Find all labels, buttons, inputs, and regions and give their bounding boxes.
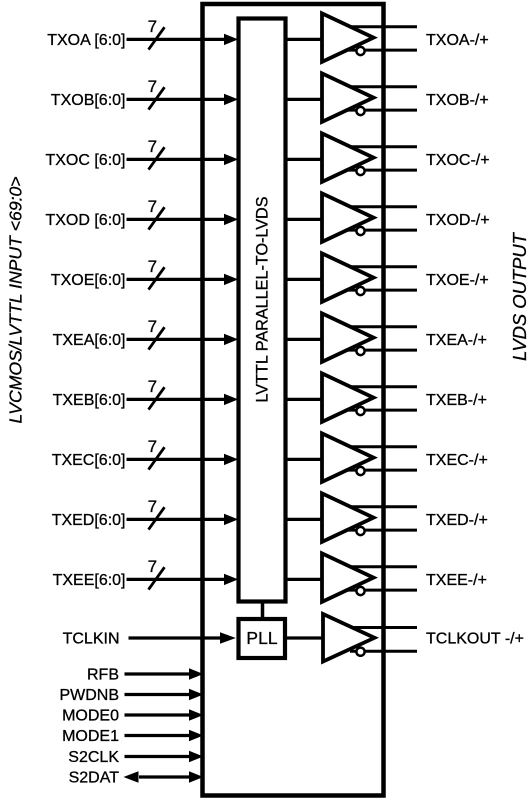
wire TXOC+ output	[349, 145, 417, 148]
svg-text:TXOB[6:0]: TXOB[6:0]	[51, 92, 126, 109]
inversion bubble TXOE	[356, 287, 364, 295]
bus width label 7 (TXOB)	[148, 77, 157, 96]
label TXEE[6:0]	[53, 572, 126, 589]
wire TXOC- output	[345, 169, 417, 172]
label LVDS OUTPUT	[509, 231, 530, 361]
svg-text:TXEC[6:0]: TXEC[6:0]	[52, 452, 126, 469]
wire MODE1	[125, 734, 192, 737]
serializer block LVTTL PARALLEL-TO-LVDS	[239, 19, 286, 602]
label TXEA-/+	[426, 332, 487, 349]
wire serializer to driver TXOD	[285, 218, 323, 221]
inversion bubble TXOB	[356, 107, 364, 115]
label TXOD-/+	[426, 212, 490, 229]
label TXED[6:0]	[52, 512, 126, 529]
wire MODE0	[125, 713, 192, 716]
wire TCLKOUT- output	[350, 650, 417, 653]
wire TXED- output	[345, 529, 417, 532]
svg-text:TXOC-/+: TXOC-/+	[426, 152, 490, 169]
svg-text:TXED-/+: TXED-/+	[426, 512, 488, 529]
svg-text:S2DAT: S2DAT	[69, 770, 120, 787]
svg-text:LVTTL PARALLEL-TO-LVDS: LVTTL PARALLEL-TO-LVDS	[254, 196, 272, 402]
label S2DAT	[69, 770, 120, 787]
arrowhead S2DAT bidirectional (left)	[124, 771, 139, 782]
wire serializer to driver TXEC	[285, 458, 323, 461]
wire S2DAT	[139, 775, 191, 778]
LVDS driver TXOC	[322, 133, 374, 182]
arrowhead TXOC into serializer	[224, 154, 238, 165]
wire TCLKIN	[129, 636, 223, 639]
bus slash TXOD	[149, 207, 165, 229]
label TXOC-/+	[426, 152, 490, 169]
svg-text:TXOC [6:0]: TXOC [6:0]	[45, 152, 125, 169]
label RFB	[87, 667, 119, 684]
wire TXOC input bus	[127, 158, 227, 161]
wire TXOD+ output	[349, 205, 417, 208]
wire TXOE+ output	[349, 265, 417, 268]
wire TXEE- output	[345, 589, 417, 592]
bus width label 7 (TXED)	[148, 497, 157, 516]
label TXEC-/+	[426, 452, 488, 469]
wire serializer to driver TXEE	[285, 578, 323, 581]
label TXEC[6:0]	[52, 452, 126, 469]
bus slash TXEC	[149, 447, 165, 469]
svg-text:7: 7	[148, 557, 157, 576]
LVDS clock driver TCLK	[323, 614, 375, 662]
svg-text:7: 7	[148, 497, 157, 516]
inversion bubble TCLK	[356, 648, 364, 656]
arrowhead TXOB into serializer	[224, 94, 238, 105]
inversion bubble TXOC	[356, 167, 364, 175]
arrowhead TXOE into serializer	[224, 274, 238, 285]
wire TXOA+ output	[349, 25, 417, 28]
bus width label 7 (TXEB)	[148, 377, 157, 396]
label LVCMOS/LVTTL INPUT <69:0>	[6, 176, 26, 423]
chip outline U1	[203, 4, 384, 796]
arrowhead MODE1 into chip	[189, 730, 203, 741]
svg-text:LVDS OUTPUT: LVDS OUTPUT	[509, 231, 530, 361]
svg-text:7: 7	[148, 77, 157, 96]
wire TXOB+ output	[349, 85, 417, 88]
label TCLKIN	[63, 630, 120, 647]
wire PWDNB	[125, 693, 192, 696]
wire TXOD input bus	[127, 218, 227, 221]
arrowhead RFB into chip	[189, 668, 203, 679]
arrowhead TCLKIN into PLL	[220, 632, 236, 643]
svg-text:TCLKIN: TCLKIN	[63, 630, 120, 647]
wire TXOE- output	[345, 289, 417, 292]
arrowhead S2CLK into chip	[189, 751, 203, 762]
wire TXEA+ output	[349, 325, 417, 328]
wire serializer-to-PLL	[261, 601, 265, 620]
label LVTTL PARALLEL-TO-LVDS	[254, 196, 272, 402]
wire TXOA input bus	[127, 38, 227, 41]
svg-text:S2CLK: S2CLK	[68, 749, 119, 766]
wire TCLKOUT+ output	[353, 626, 417, 629]
bus width label 7 (TXEA)	[148, 317, 157, 336]
arrowhead TXED into serializer	[224, 514, 238, 525]
inversion bubble TXOD	[356, 227, 364, 235]
label TXEE-/+	[426, 572, 487, 589]
label TXEA[6:0]	[53, 332, 126, 349]
LVDS driver TXOB	[322, 73, 374, 122]
arrowhead TXEA into serializer	[224, 334, 238, 345]
label TXOA [6:0]	[47, 32, 125, 49]
svg-text:TXOE-/+: TXOE-/+	[426, 272, 489, 289]
label TXEB-/+	[426, 392, 487, 409]
wire serializer to driver TXOE	[285, 278, 323, 281]
svg-text:TXOB-/+: TXOB-/+	[426, 92, 489, 109]
wire serializer to driver TXED	[285, 518, 323, 521]
bus slash TXOE	[149, 267, 165, 289]
wire serializer to driver TXEA	[285, 338, 323, 341]
LVDS driver TXED	[322, 493, 374, 542]
wire TXOB- output	[345, 109, 417, 112]
LVDS driver TXOE	[322, 253, 374, 302]
label TXOD [6:0]	[45, 212, 125, 229]
svg-text:TXOD-/+: TXOD-/+	[426, 212, 490, 229]
svg-text:7: 7	[148, 17, 157, 36]
wire TXEA input bus	[127, 338, 227, 341]
wire TXOD- output	[345, 229, 417, 232]
svg-text:TXED[6:0]: TXED[6:0]	[52, 512, 126, 529]
arrowhead S2DAT into chip	[189, 771, 203, 782]
bus slash TXEA	[149, 327, 165, 349]
svg-text:TCLKOUT -/+: TCLKOUT -/+	[426, 631, 524, 648]
bus slash TXOB	[149, 87, 165, 109]
svg-text:TXEA-/+: TXEA-/+	[426, 332, 487, 349]
bus width label 7 (TXOD)	[148, 197, 157, 216]
LVDS driver TXEB	[322, 373, 374, 422]
inversion bubble TXEC	[356, 467, 364, 475]
arrowhead TXEE into serializer	[224, 574, 238, 585]
bus width label 7 (TXOA)	[148, 17, 157, 36]
wire serializer to driver TXEB	[285, 398, 323, 401]
svg-text:7: 7	[148, 137, 157, 156]
svg-text:PLL: PLL	[246, 628, 277, 648]
bus width label 7 (TXEC)	[148, 437, 157, 456]
bus slash TXED	[149, 507, 165, 529]
wire TXEB- output	[345, 409, 417, 412]
arrowhead TXOD into serializer	[224, 214, 238, 225]
svg-text:TXEE-/+: TXEE-/+	[426, 572, 487, 589]
svg-text:TXOA [6:0]: TXOA [6:0]	[47, 32, 125, 49]
arrowhead TXOA into serializer	[224, 34, 238, 45]
label TXEB[6:0]	[53, 392, 126, 409]
svg-text:7: 7	[148, 317, 157, 336]
wire RFB	[125, 672, 192, 675]
wire TXEB input bus	[127, 398, 227, 401]
label TXOA-/+	[426, 32, 489, 49]
svg-text:7: 7	[148, 437, 157, 456]
inversion bubble TXEB	[356, 407, 364, 415]
label MODE0	[62, 708, 119, 725]
wire TXOB input bus	[127, 98, 227, 101]
svg-text:TXEB-/+: TXEB-/+	[426, 392, 487, 409]
label MODE1	[62, 728, 119, 745]
bus width label 7 (TXEE)	[148, 557, 157, 576]
svg-text:TXOD [6:0]: TXOD [6:0]	[45, 212, 125, 229]
svg-text:MODE0: MODE0	[62, 708, 119, 725]
arrowhead TXEB into serializer	[224, 394, 238, 405]
arrowhead MODE0 into chip	[189, 709, 203, 720]
wire serializer to driver TXOB	[285, 98, 323, 101]
label S2CLK	[68, 749, 119, 766]
wire TXOA- output	[345, 49, 417, 52]
LVDS driver TXEC	[322, 433, 374, 482]
svg-text:RFB: RFB	[87, 667, 119, 684]
bus width label 7 (TXOC)	[148, 137, 157, 156]
label PLL	[246, 628, 277, 648]
label TXOE-/+	[426, 272, 489, 289]
label TXED-/+	[426, 512, 488, 529]
svg-text:MODE1: MODE1	[62, 728, 119, 745]
LVDS driver TXOD	[322, 193, 374, 242]
wire TXEA- output	[345, 349, 417, 352]
wire TXOE input bus	[127, 278, 227, 281]
wire S2CLK	[125, 755, 192, 758]
wire serializer to driver TXOA	[285, 38, 323, 41]
arrowhead TXEC into serializer	[224, 454, 238, 465]
bus slash TXOC	[149, 147, 165, 169]
svg-text:TXEE[6:0]: TXEE[6:0]	[53, 572, 126, 589]
wire TXED input bus	[127, 518, 227, 521]
wire serializer to driver TXOC	[285, 158, 323, 161]
svg-text:7: 7	[148, 377, 157, 396]
inversion bubble TXED	[356, 527, 364, 535]
LVDS driver TXEA	[322, 313, 374, 362]
inversion bubble TXEE	[356, 587, 364, 595]
svg-text:TXEC-/+: TXEC-/+	[426, 452, 488, 469]
label TCLKOUT -/+	[426, 631, 524, 648]
svg-text:TXOE[6:0]: TXOE[6:0]	[51, 272, 126, 289]
wire TXEE input bus	[127, 578, 227, 581]
svg-text:LVCMOS/LVTTL INPUT <69:0>: LVCMOS/LVTTL INPUT <69:0>	[6, 176, 26, 423]
svg-text:7: 7	[148, 197, 157, 216]
wire TXED+ output	[349, 505, 417, 508]
wire TXEC input bus	[127, 458, 227, 461]
svg-text:7: 7	[148, 257, 157, 276]
inversion bubble TXEA	[356, 347, 364, 355]
label TXOB[6:0]	[51, 92, 126, 109]
svg-text:TXEB[6:0]: TXEB[6:0]	[53, 392, 126, 409]
wire TXEB+ output	[349, 385, 417, 388]
LVDS driver TXOA	[322, 13, 374, 62]
label PWDNB	[59, 687, 119, 704]
inversion bubble TXOA	[356, 47, 364, 55]
wire TXEE+ output	[349, 565, 417, 568]
wire PLL to clock driver	[285, 636, 324, 639]
LVDS driver TXEE	[322, 553, 374, 602]
bus slash TXEB	[149, 387, 165, 409]
wire TXEC+ output	[349, 445, 417, 448]
svg-text:TXEA[6:0]: TXEA[6:0]	[53, 332, 126, 349]
arrowhead PWDNB into chip	[189, 689, 203, 700]
svg-text:PWDNB: PWDNB	[59, 687, 119, 704]
bus width label 7 (TXOE)	[148, 257, 157, 276]
bus slash TXEE	[149, 567, 165, 589]
PLL block	[239, 619, 286, 658]
label TXOE[6:0]	[51, 272, 126, 289]
svg-text:TXOA-/+: TXOA-/+	[426, 32, 489, 49]
label TXOC [6:0]	[45, 152, 125, 169]
label TXOB-/+	[426, 92, 489, 109]
bus slash TXOA	[149, 27, 165, 49]
wire TXEC- output	[345, 469, 417, 472]
